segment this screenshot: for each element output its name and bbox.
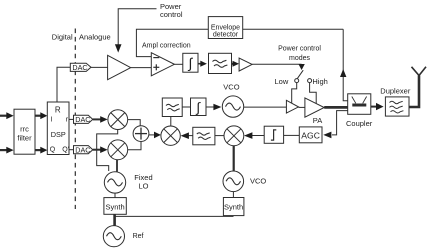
arrow filter F1 to buffer (232, 61, 240, 67)
wire DSP R output to DAC1 (57, 67, 70, 102)
buffer amp A2 (239, 58, 252, 71)
DAC3 wire from DSP Q' (69, 149, 74, 151)
wire Low contact to driver stage (292, 83, 297, 103)
svg-text:Power control: Power control (278, 46, 321, 53)
svg-text:High: High (312, 77, 327, 86)
wire M2 to VCO2 (thick) (233, 146, 235, 172)
filter F2 (loop filter) (162, 98, 182, 117)
wire rrc to DSP (I) (35, 112, 47, 119)
arrow integrator to filter F1 (198, 61, 207, 67)
wire I input arrow (0, 112, 14, 119)
arrow DAC2 to mixer I (93, 116, 108, 123)
DAC2 (74, 115, 93, 124)
summer S1 (133, 126, 149, 142)
wire VCO2 to synth2 (232, 192, 234, 198)
power control wire with down arrow (115, 9, 157, 53)
wire PA to coupler (thick) (324, 106, 348, 109)
arrow DAC3 to mixer Q (93, 146, 108, 153)
svg-text:I: I (51, 116, 53, 123)
svg-text:DAC: DAC (72, 63, 87, 72)
svg-text:Ampl correction: Ampl correction (142, 42, 191, 49)
duplexer (385, 97, 409, 116)
switch SW1 blade (297, 70, 303, 78)
wire rrc to DSP (Q) (35, 147, 47, 154)
wire driver to PA (299, 106, 305, 108)
switch contact Low (295, 79, 299, 83)
svg-text:VCO: VCO (250, 176, 266, 185)
svg-text:Synth: Synth (224, 203, 243, 212)
mixer I (108, 110, 128, 130)
phase detector mixer (161, 126, 180, 145)
arrow coupler to duplexer (371, 103, 384, 110)
svg-text:modes: modes (289, 55, 311, 62)
phase path: wire mixer I to summer (128, 120, 141, 126)
coupler (348, 94, 371, 115)
limiter block (264, 126, 283, 143)
svg-text:Coupler: Coupler (346, 119, 373, 128)
amplifier A1 (power control amp) (108, 55, 131, 79)
svg-text:VCO: VCO (223, 83, 239, 92)
VCO1 (222, 96, 243, 117)
svg-text:Duplexer: Duplexer (380, 86, 411, 95)
wire M2 to filter F3 (215, 135, 224, 137)
envelope detector (208, 17, 242, 39)
arrow summer to phase detector (149, 132, 161, 139)
filter F3 (193, 127, 215, 145)
svg-text:LO: LO (139, 181, 149, 190)
DSP block (47, 102, 69, 155)
DAC2 wire from DSP r (69, 118, 74, 120)
driver amp A3 (286, 100, 298, 113)
rrc filter (14, 109, 35, 154)
wire VCO1 to driver (244, 106, 287, 108)
wire coupler tap up to envelope detector with arrow (340, 29, 348, 101)
svg-text:Digital: Digital (52, 33, 73, 42)
svg-text:AGC: AGC (301, 130, 320, 140)
svg-text:Q': Q' (62, 147, 69, 154)
antenna (412, 67, 427, 76)
wire A1 to correction amp (131, 67, 152, 69)
fixed LO oscillator (104, 172, 125, 193)
svg-text:rrc: rrc (20, 125, 29, 134)
wire LO to synth1 (114, 193, 116, 198)
wire duplexer to antenna (thick) (409, 76, 419, 108)
integrator U1 (183, 53, 198, 72)
svg-text:Synth: Synth (106, 202, 125, 211)
DAC3 (74, 145, 93, 154)
DAC1 (70, 63, 91, 72)
wire High contact to PA stage (310, 83, 317, 104)
filter F1 (lowpass) (209, 53, 232, 73)
wire LO to mixer I (97, 130, 118, 172)
switch contact High (308, 79, 312, 83)
PA amp (305, 98, 324, 117)
digital/analogue boundary (dashed) (74, 29, 76, 210)
VCO2 (223, 171, 244, 192)
svg-text:Q: Q (50, 147, 56, 154)
svg-text:control: control (160, 10, 183, 19)
mixer Q (108, 140, 128, 160)
arrow limiter to mixer M2 (244, 132, 264, 139)
mixer M2 (downconvert) (224, 126, 244, 146)
wire buffer to mode switch (down arrow) (252, 64, 305, 70)
wire mixer Q to summer (128, 142, 141, 150)
wire envelope detector to correction amp minus input (136, 29, 208, 56)
svg-text:detector: detector (213, 32, 239, 39)
wire phase detector to loop filter F2 (170, 117, 172, 127)
wire Q input arrow (0, 147, 14, 154)
wire coupler tap down to AGC with arrow (323, 111, 347, 139)
synth1 (104, 198, 126, 215)
AGC block (299, 127, 322, 143)
svg-text:DAC: DAC (75, 115, 90, 124)
wire AGC to limiter (284, 134, 300, 136)
integrator U2 (191, 98, 207, 116)
svg-text:DSP: DSP (51, 130, 66, 139)
wire synth1 to ref (113, 214, 116, 225)
wire DAC1 to amplifier (91, 66, 108, 68)
svg-text:Low: Low (275, 77, 289, 86)
wire ref distribution to synth2 (115, 215, 233, 218)
wire LO to mixer Q (116, 160, 118, 172)
svg-text:Analogue: Analogue (79, 33, 111, 42)
wire F2 to integrator U2 (182, 106, 190, 108)
svg-text:PA: PA (313, 116, 322, 125)
op-amp ampl correction (151, 53, 174, 76)
arrow U2 to VCO1 (206, 104, 221, 111)
ref oscillator (103, 226, 124, 247)
arrow F3 to phase detector (181, 132, 193, 139)
wire correction amp to integrator (174, 63, 182, 65)
svg-text:R: R (55, 105, 61, 114)
svg-text:Envelope: Envelope (211, 24, 240, 31)
synth2 (223, 198, 244, 216)
svg-text:Ref: Ref (133, 233, 144, 240)
svg-text:DAC: DAC (75, 145, 90, 154)
svg-text:filter: filter (17, 134, 32, 143)
envelope feedback top run (243, 28, 344, 30)
